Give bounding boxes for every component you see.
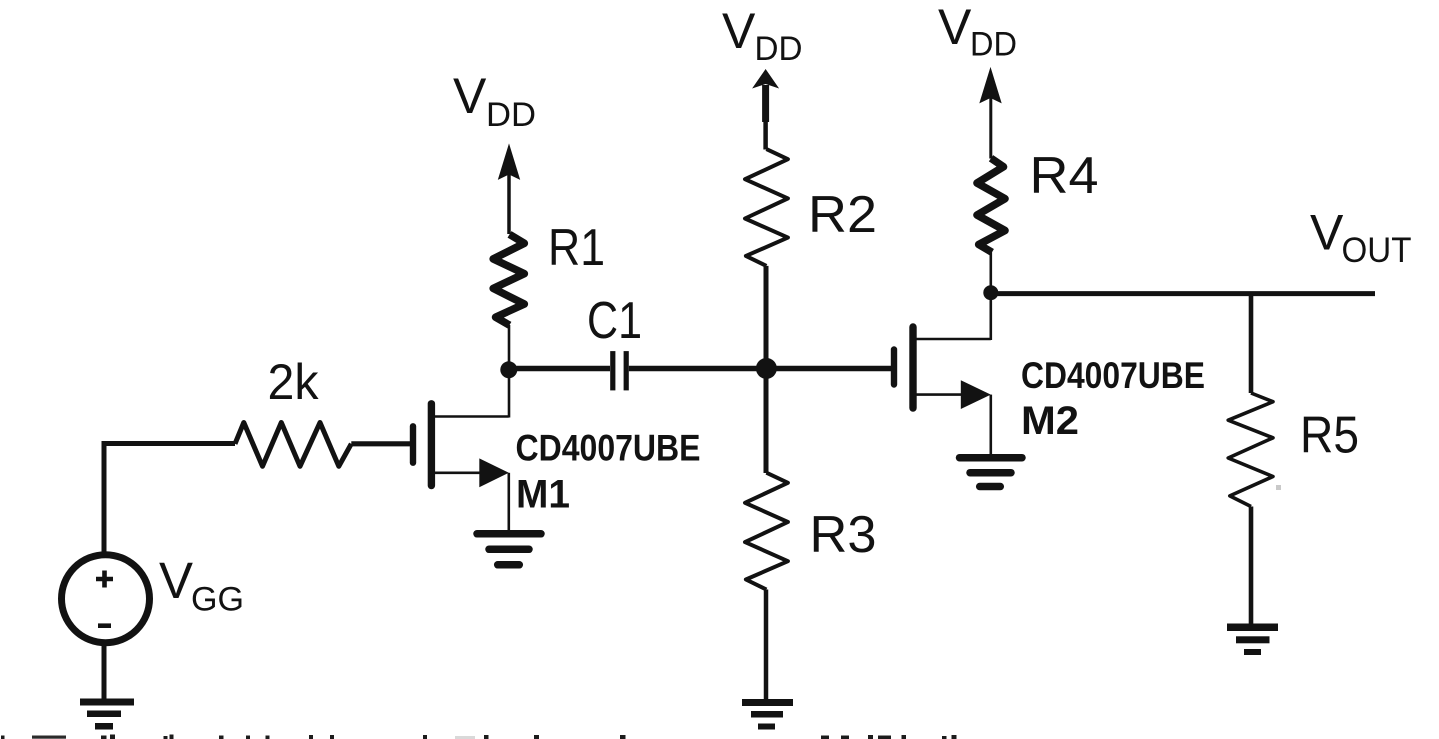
wire M2 source down <box>989 395 992 455</box>
wire R5 to ground <box>1249 507 1254 626</box>
wire R1 to M1 drain <box>508 325 511 418</box>
svg-text:V: V <box>159 552 193 609</box>
ground below M1 <box>477 534 541 565</box>
svg-text:DD: DD <box>755 30 803 68</box>
resistor R5 <box>1228 393 1273 507</box>
svg-text:DD: DD <box>486 96 536 134</box>
voltage source VGG <box>62 555 150 643</box>
label VDD (R1 branch) <box>453 68 536 134</box>
resistor R4 <box>977 158 1005 252</box>
svg-text:M2: M2 <box>1021 399 1079 443</box>
label VDD (R4 branch) <box>938 0 1017 64</box>
svg-text:V: V <box>938 0 972 55</box>
resistor R2 <box>745 149 788 266</box>
wire VOUT line <box>991 291 1375 296</box>
node A (M1 drain) <box>500 361 517 378</box>
svg-text:DD: DD <box>970 26 1017 64</box>
resistor R3 <box>745 473 788 590</box>
label VOUT <box>1310 205 1412 270</box>
svg-text:C1: C1 <box>587 292 642 350</box>
resistor R1 <box>493 234 524 325</box>
svg-text:GG: GG <box>191 580 244 618</box>
svg-text:CD4007UBE: CD4007UBE <box>1021 355 1205 396</box>
transistor M1 <box>413 404 509 487</box>
wire node A to C1 <box>509 366 610 371</box>
ground below M2 <box>960 458 1023 487</box>
capacitor C1 <box>610 351 629 390</box>
svg-text:OUT: OUT <box>1342 231 1412 270</box>
wire R2 to node B to R3 <box>764 266 769 473</box>
svg-text:2k: 2k <box>268 354 320 410</box>
ground below R3 <box>742 699 793 730</box>
svg-text:V: V <box>453 68 487 124</box>
jpeg artifact near R5 <box>1276 485 1281 490</box>
wire R3 to ground <box>764 590 769 702</box>
svg-text:M1: M1 <box>516 473 570 517</box>
svg-text:R1: R1 <box>548 219 605 277</box>
label VDD (R2 branch) <box>722 3 803 68</box>
svg-text:R3: R3 <box>810 506 877 564</box>
ground below VGG <box>80 699 134 730</box>
svg-text:R5: R5 <box>1300 406 1359 464</box>
wire VOUT to R5 <box>1249 294 1254 393</box>
cut-off caption glyph fragments at bottom edge <box>1 735 957 739</box>
label VGG <box>159 552 244 618</box>
wire 2k to M1 gate <box>351 441 411 446</box>
svg-text:CD4007UBE: CD4007UBE <box>516 428 701 469</box>
ground below R5 <box>1227 624 1278 656</box>
wire VGG top to corner <box>104 444 235 557</box>
transistor M2 <box>894 327 991 409</box>
node C (M2 drain / VOUT) <box>983 285 998 300</box>
power arrow VDD R4 <box>979 67 1001 159</box>
svg-text:V: V <box>1310 205 1344 261</box>
wire C1 to M2 gate <box>629 366 892 371</box>
wire M1 source down <box>507 473 510 531</box>
wire R4 to M2 drain <box>989 252 992 340</box>
svg-text:R4: R4 <box>1030 147 1099 205</box>
svg-text:R2: R2 <box>808 186 877 244</box>
node B (center junction) <box>756 358 777 379</box>
power arrow VDD R1 <box>498 143 520 234</box>
power arrow VDD R2 <box>752 69 779 150</box>
resistor 2k <box>235 423 351 467</box>
svg-text:V: V <box>722 3 756 59</box>
wire VGG bottom <box>102 643 107 700</box>
